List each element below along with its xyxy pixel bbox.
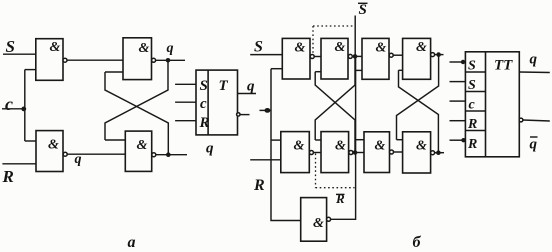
svg-text:c: c	[469, 98, 476, 113]
TT flip-flop symbol box	[465, 52, 519, 157]
inverter bubble T symbol lower output	[237, 113, 240, 116]
inverter bubble DD9 output	[327, 217, 331, 221]
wire R to gate DD2	[250, 159, 281, 161]
gate DD1 (NAND &, row1 col1)	[282, 38, 310, 79]
wire DD6 out to DD8 in	[394, 151, 403, 153]
dotted wire S-bar alternative vertical	[312, 26, 314, 55]
junction S-bar node	[353, 54, 358, 59]
gate D4 (NAND &, bottom-right)	[125, 131, 151, 171]
wire D2 out to D4 in	[67, 153, 125, 155]
wire S to gate D1	[3, 53, 36, 55]
wire c input	[2, 108, 25, 110]
wire feedback stub into DD8	[397, 139, 403, 141]
wire feedback stub into DD3	[315, 71, 321, 73]
svg-text:S: S	[200, 78, 208, 94]
svg-text:&: &	[313, 216, 324, 231]
wire DD4 out to DD6 in	[353, 152, 364, 154]
svg-text:&: &	[375, 139, 386, 154]
junction q-bar node	[166, 152, 171, 157]
wire c-bar stub to DD6	[356, 139, 364, 141]
wire master cross: DD4 out up-left to DD3 in	[315, 72, 355, 153]
junction clock node	[264, 108, 270, 113]
gate D1 (NAND &, top-left)	[36, 39, 63, 81]
svg-text:q: q	[530, 137, 538, 153]
gate D3 (NAND &, top-right)	[123, 38, 152, 80]
wire DD5 out to DD7 in	[393, 54, 402, 56]
wire clock stub to vertical	[260, 109, 272, 111]
wire q output (T symbol)	[238, 93, 257, 95]
wire feedback stub into DD4	[315, 139, 321, 141]
junction R2 stub dot	[461, 138, 465, 142]
wire DD1 out to DD3 in	[314, 56, 321, 58]
gate DD4 (NAND &, row2 col2)	[321, 132, 349, 173]
svg-text:&: &	[335, 139, 346, 154]
svg-text:&: &	[416, 40, 427, 55]
inverter bubble DD8 output	[431, 151, 435, 155]
wire R stub (T symbol)	[175, 120, 196, 122]
svg-text:&: &	[376, 41, 387, 56]
wire c vertical	[24, 70, 26, 141]
inverter bubble D1 output	[63, 58, 67, 62]
junction q node	[166, 58, 171, 63]
dotted wire S-bar alternative horizontal	[313, 25, 355, 27]
wire c-bar vertical (inverter to stage 2)	[331, 56, 356, 219]
wire S2 stub (TT symbol)	[450, 81, 466, 83]
svg-text:R: R	[335, 191, 345, 206]
dotted wire R-bar alternative horizontal	[316, 187, 355, 189]
svg-text:c: c	[200, 96, 207, 112]
inverter bubble D3 output	[152, 58, 156, 62]
wire q-bar output of D4	[156, 154, 187, 156]
svg-text:&: &	[50, 40, 61, 55]
dotted wire R-bar alternative vertical	[315, 154, 317, 188]
svg-text:R: R	[2, 167, 14, 186]
svg-text:TT: TT	[494, 58, 513, 74]
wire S to gate DD1	[250, 54, 282, 56]
wire c stub to D1	[25, 69, 36, 71]
gate DD5 (NAND &, row1 col3)	[362, 38, 389, 79]
wire clock vertical	[271, 69, 301, 221]
gate DD3 (NAND &, row1 col2)	[321, 38, 348, 79]
svg-text:q: q	[530, 52, 538, 68]
wire slave cross: DD7 out down-left to DD8 in	[397, 55, 439, 140]
svg-text:S: S	[468, 78, 476, 93]
inverter bubble DD7 output	[431, 53, 435, 57]
gate DD8 (NAND &, row2 col4)	[403, 132, 431, 173]
wire S1 stub (TT symbol)	[450, 61, 466, 63]
inverter bubble D4 output	[152, 153, 156, 157]
svg-text:а: а	[128, 234, 136, 251]
svg-text:q: q	[75, 152, 82, 167]
svg-text:S: S	[468, 59, 476, 74]
svg-text:&: &	[295, 41, 306, 56]
svg-text:S: S	[254, 39, 263, 56]
svg-text:&: &	[416, 139, 427, 154]
inverter bubble TT lower output	[519, 118, 523, 122]
wire c-bar stub to DD5	[356, 69, 362, 71]
wire feedback stub into D3	[105, 71, 123, 73]
svg-text:c: c	[5, 94, 13, 114]
svg-text:&: &	[335, 40, 346, 55]
wire clock stub to DD2	[271, 139, 281, 141]
gate DD2 (NAND &, row2 col1)	[281, 132, 310, 173]
inverter bubble DD2 output	[309, 151, 313, 155]
wire DD7 output	[435, 54, 444, 56]
junction DD7 out node	[436, 52, 441, 57]
svg-text:R: R	[199, 115, 210, 131]
gate D2 (NAND &, bottom-left)	[36, 131, 63, 172]
wire D1 out to D3 in	[67, 59, 123, 61]
svg-text:q: q	[167, 41, 174, 56]
wire DD3 out to DD5 in	[352, 55, 362, 57]
svg-text:&: &	[137, 138, 148, 153]
wire R1 stub (TT symbol)	[450, 120, 466, 122]
T flip-flop symbol box	[196, 70, 238, 135]
gate DD6 (NAND &, row2 col3)	[364, 132, 390, 173]
svg-text:q: q	[247, 79, 255, 95]
inverter bubble DD1 output	[310, 55, 314, 59]
wire DD2 out to DD4 in	[313, 152, 321, 154]
junction c node	[21, 107, 26, 112]
wire S stub (T symbol)	[175, 83, 196, 85]
svg-text:&: &	[48, 138, 59, 153]
junction S1 stub dot	[461, 60, 465, 64]
wire c stub (TT symbol)	[450, 100, 466, 102]
wire S-bar vertical	[354, 16, 356, 57]
wire slave cross: DD8 out up-left to DD7 in	[399, 70, 439, 152]
wire cross feedback q to D4	[105, 60, 168, 140]
junction R-bar node	[353, 150, 358, 155]
wire q-bar output (T symbol)	[240, 114, 250, 116]
label S-bar (async set)	[358, 2, 368, 18]
wire q-bar output (TT symbol)	[523, 120, 550, 121]
svg-text:R: R	[467, 137, 477, 152]
wire R to gate D2	[2, 163, 36, 165]
wire c stub (T symbol)	[175, 101, 196, 103]
inverter bubble DD6 output	[390, 150, 394, 154]
svg-text:S: S	[6, 37, 15, 56]
wire R2 stub (TT symbol)	[450, 139, 466, 141]
wire c stub to D2	[25, 140, 36, 142]
wire clock stub to DD1	[271, 68, 282, 70]
wire feedback stub into DD7	[399, 69, 403, 71]
svg-text:T: T	[219, 78, 229, 94]
inverter bubble D2 output	[63, 152, 67, 156]
wire master cross: DD3 out down-left to DD4 in	[315, 56, 355, 140]
wire DD8 output	[435, 152, 444, 154]
svg-text:q: q	[206, 141, 214, 157]
svg-text:&: &	[139, 41, 150, 56]
inverter bubble DD3 output	[348, 54, 352, 58]
wire q output of D3	[156, 59, 185, 61]
label q-bar (TT output)	[530, 137, 538, 153]
svg-text:R: R	[253, 177, 265, 194]
wire q output (TT symbol)	[519, 71, 550, 74]
label R-bar (async reset)	[335, 191, 345, 206]
inverter bubble DD5 output	[389, 53, 393, 57]
svg-text:R: R	[467, 117, 477, 132]
svg-text:S: S	[359, 2, 367, 18]
svg-text:&: &	[294, 139, 305, 154]
inverter bubble DD4 output	[349, 151, 353, 155]
junction DD8 out node	[436, 150, 441, 155]
gate DD7 (NAND &, row1 col4)	[403, 38, 431, 79]
gate DD9 (NAND inverter, clock)	[301, 198, 327, 242]
wire cross feedback q-bar to D3	[105, 72, 168, 155]
wire feedback stub into D4	[105, 139, 125, 141]
svg-text:б: б	[413, 234, 422, 251]
